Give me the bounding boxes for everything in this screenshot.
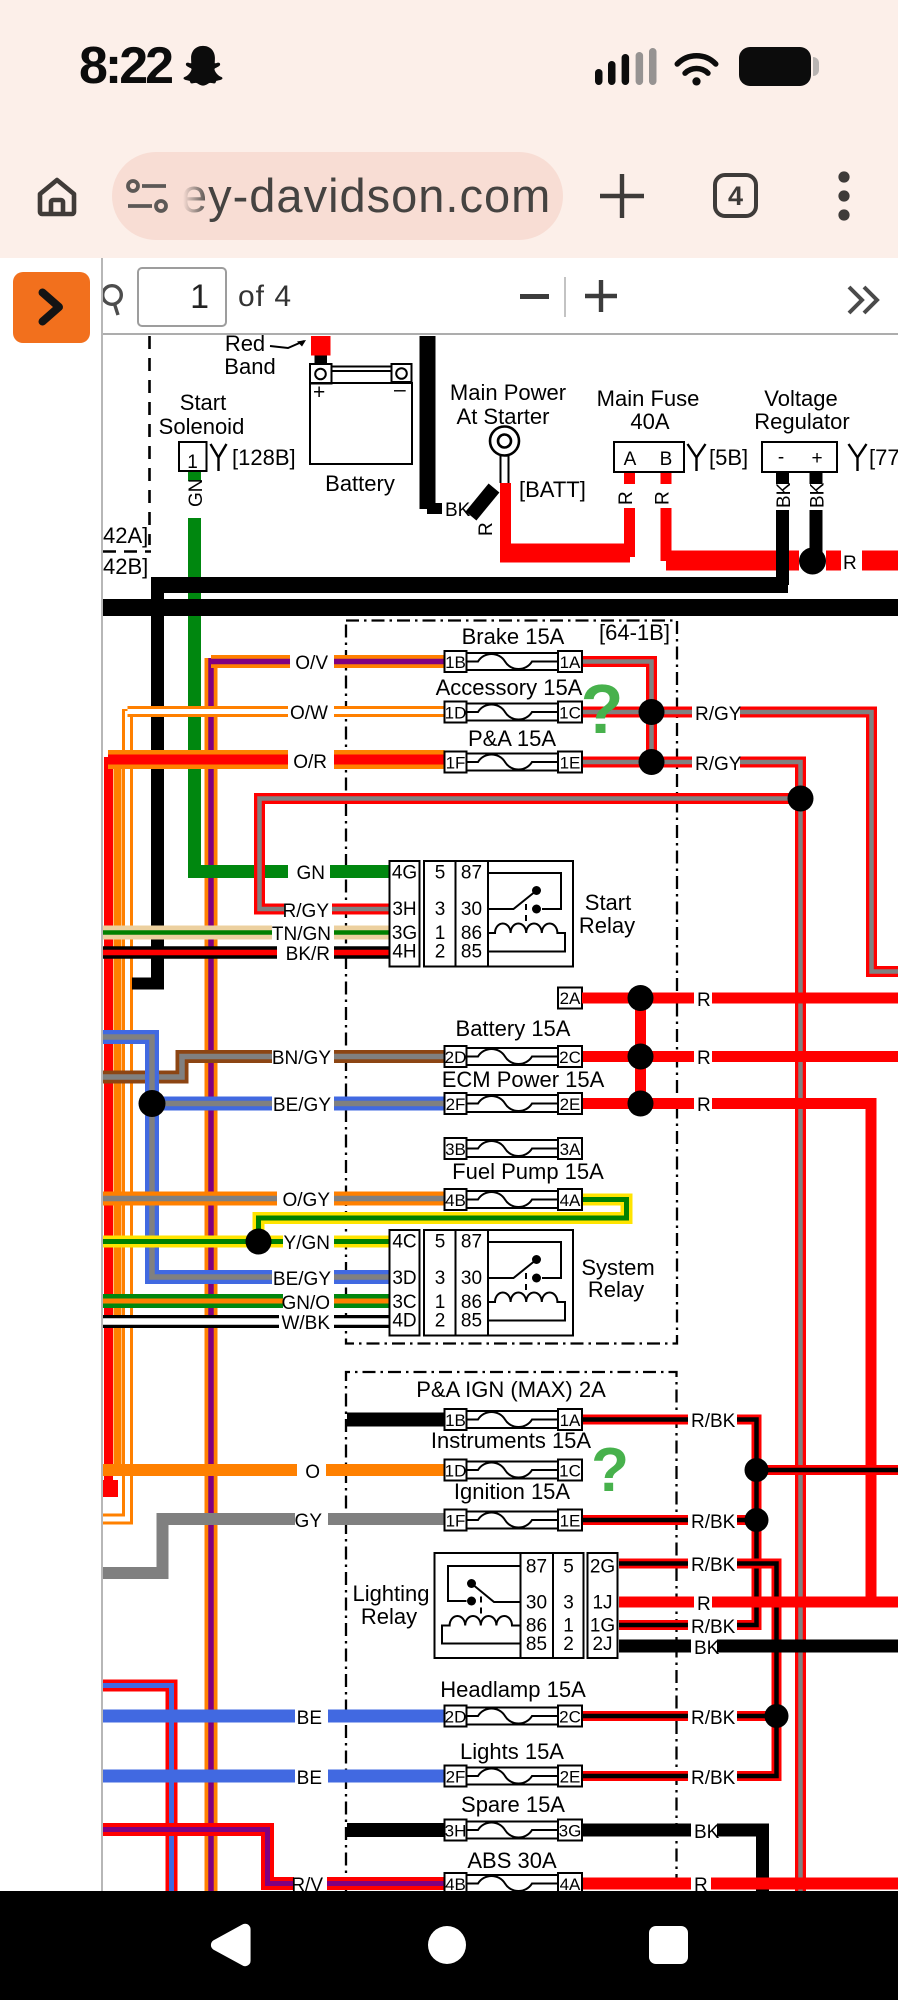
svg-text:2E: 2E xyxy=(560,1095,581,1114)
svg-text:2C: 2C xyxy=(559,1708,581,1727)
junction node BE/GY xyxy=(139,1090,166,1117)
ground bus lower (full width) xyxy=(103,599,898,616)
svg-text:Battery: Battery xyxy=(325,471,395,496)
svg-text:R/BK: R/BK xyxy=(691,1411,736,1432)
junction node R/BK ignition xyxy=(745,1508,769,1532)
label Start Solenoid xyxy=(159,390,245,439)
svg-text:?: ? xyxy=(581,670,624,748)
svg-text:2: 2 xyxy=(563,1634,574,1655)
svg-text:30: 30 xyxy=(526,1593,547,1614)
junction node 2C xyxy=(628,1044,654,1070)
svg-text:?: ? xyxy=(591,1436,629,1505)
status bar time xyxy=(79,36,171,96)
svg-text:5: 5 xyxy=(563,1557,574,1578)
voltage regulator plus lead BK xyxy=(810,472,823,552)
wire GY to fuse 1F (Ignition) xyxy=(103,1519,445,1573)
svg-text:3A: 3A xyxy=(560,1140,581,1159)
svg-text:3G: 3G xyxy=(559,1822,582,1841)
svg-text:O/GY: O/GY xyxy=(282,1190,330,1211)
wire R/GY from fuse 1E to node xyxy=(582,757,652,768)
fuse P&A IGN (MAX) 2A xyxy=(416,1377,606,1430)
kebab menu xyxy=(836,166,852,226)
fuse block 2 dash-dot border xyxy=(346,1372,677,1891)
svg-text:3D: 3D xyxy=(392,1268,416,1289)
wire R from fuse 2E right then down to lighting relay feed xyxy=(582,1104,871,1603)
svg-text:2G: 2G xyxy=(590,1557,615,1578)
pdf toolbar xyxy=(0,258,898,335)
svg-text:BE/GY: BE/GY xyxy=(273,1269,331,1290)
svg-text:3: 3 xyxy=(563,1593,574,1614)
junction node 2E xyxy=(628,1091,654,1117)
wire O/R to fuse 1F xyxy=(108,750,445,769)
wire R/V to fuse 4B (ABS) xyxy=(103,1830,445,1884)
svg-text:40A: 40A xyxy=(630,409,669,434)
wire O/R vertical (orange part) xyxy=(114,753,122,1468)
svg-text:At Starter: At Starter xyxy=(457,404,550,429)
svg-text:Relay: Relay xyxy=(588,1277,644,1302)
svg-text:R/BK: R/BK xyxy=(691,1768,736,1789)
battery icon xyxy=(739,46,823,88)
svg-text:W/BK: W/BK xyxy=(281,1313,330,1334)
svg-text:1F: 1F xyxy=(446,754,466,773)
svg-text:[77: [77 xyxy=(869,445,898,470)
svg-text:87: 87 xyxy=(526,1557,547,1578)
snapchat ghost notification icon xyxy=(180,43,226,89)
connector Y [77B] xyxy=(849,444,898,471)
zoom in xyxy=(584,279,618,313)
dashed connector boundary [142] xyxy=(103,336,151,552)
svg-text:1F: 1F xyxy=(446,1512,466,1531)
wire GN vertical from start solenoid xyxy=(188,471,201,872)
voltage regulator box xyxy=(762,442,837,472)
svg-text:P&A IGN (MAX) 2A: P&A IGN (MAX) 2A xyxy=(416,1377,606,1402)
wire BE/GY from left into junction and fuse 2F xyxy=(103,1037,445,1104)
wire O/GY to fuse 4B xyxy=(103,1192,445,1206)
junction node Y/GN xyxy=(246,1229,272,1255)
junction node R/GY right xyxy=(788,786,814,812)
svg-text:Red: Red xyxy=(225,335,265,356)
svg-text:R/GY: R/GY xyxy=(695,704,742,725)
svg-text:Battery 15A: Battery 15A xyxy=(456,1016,571,1041)
site settings icon xyxy=(126,176,170,218)
fuse Battery 15A xyxy=(445,1016,583,1067)
label System Relay xyxy=(581,1255,654,1302)
svg-text:O: O xyxy=(305,1462,320,1483)
junction node headlamp R/BK xyxy=(765,1704,789,1728)
svg-text:Lighting: Lighting xyxy=(352,1581,429,1606)
svg-text:4C: 4C xyxy=(392,1232,416,1253)
main fuse B lead red xyxy=(661,472,672,561)
wire BE to fuse 2D (Headlamp) xyxy=(103,1710,445,1723)
svg-text:R/BK: R/BK xyxy=(691,1512,736,1533)
wire R/GY main vertical down right side xyxy=(795,799,806,1892)
svg-text:Y/GN: Y/GN xyxy=(284,1233,330,1254)
junction node R/BK instruments xyxy=(745,1458,769,1482)
tab counter xyxy=(713,173,758,218)
nav home circle xyxy=(427,1925,467,1965)
wire R/GY branch from right node down to start relay 3H xyxy=(260,799,797,910)
svg-text:Solenoid: Solenoid xyxy=(159,414,245,439)
junction node 2A xyxy=(628,985,654,1011)
svg-text:2C: 2C xyxy=(559,1048,581,1067)
wire Y/GN from left to system relay 4C xyxy=(103,1236,390,1248)
wire GN to start relay 4G xyxy=(195,865,390,872)
svg-text:Start: Start xyxy=(180,390,226,415)
label Start Relay xyxy=(579,890,635,938)
svg-text:Main Fuse: Main Fuse xyxy=(597,386,700,411)
wire R/GY node link 1C node to 1E node xyxy=(646,712,657,762)
svg-text:R/BK: R/BK xyxy=(691,1708,736,1729)
svg-text:42B]: 42B] xyxy=(103,554,148,579)
svg-text:GN: GN xyxy=(186,479,207,508)
label Lighting Relay xyxy=(352,1581,429,1629)
svg-text:Band: Band xyxy=(224,354,275,379)
nav recents square xyxy=(649,1926,688,1964)
wire TN/GN to start relay 3G xyxy=(103,926,390,940)
svg-text:Accessory 15A: Accessory 15A xyxy=(436,675,583,700)
fuse Ignition 15A xyxy=(445,1479,583,1531)
wire R vertical linking 2A / 2C / 2E nodes xyxy=(635,998,646,1104)
wire O/W to fuse 1D xyxy=(128,706,445,717)
wire R/GY from P&A node right then down to main right node xyxy=(652,762,801,799)
red feeder horizontal from fuse B to right edge xyxy=(666,551,898,571)
wire BN/GY to fuse 2D xyxy=(103,1057,445,1078)
svg-text:R/GY: R/GY xyxy=(695,754,742,775)
svg-text:1C: 1C xyxy=(559,704,581,723)
label Main Power At Starter xyxy=(450,380,566,429)
svg-text:1: 1 xyxy=(187,452,198,473)
svg-text:BK: BK xyxy=(694,1822,720,1843)
svg-text:R: R xyxy=(694,1875,708,1891)
svg-text:Headlamp 15A: Headlamp 15A xyxy=(440,1677,586,1702)
svg-text:3H: 3H xyxy=(392,899,416,920)
svg-text:BN/GY: BN/GY xyxy=(272,1048,331,1069)
ground bus upper xyxy=(151,577,788,593)
wire R/BK from fuse 2E (lights) to vertical xyxy=(582,1771,688,1781)
svg-text:42A]: 42A] xyxy=(103,523,148,548)
svg-text:4A: 4A xyxy=(560,1875,581,1891)
main fuse A lead red xyxy=(624,472,635,557)
svg-text:85: 85 xyxy=(526,1634,547,1655)
fuse Brake 15A xyxy=(445,624,583,672)
svg-text:O/V: O/V xyxy=(295,653,328,674)
fuse Accessory 15A xyxy=(436,675,583,723)
wire GN/O to system relay 3C xyxy=(103,1294,390,1308)
svg-text:B: B xyxy=(660,449,673,470)
svg-text:4H: 4H xyxy=(392,942,416,963)
battery negative cable BK xyxy=(427,336,442,509)
svg-text:1A: 1A xyxy=(560,653,581,672)
wire R from fuse 2C to right edge xyxy=(582,1051,898,1062)
double chevron xyxy=(845,284,883,316)
wire BK thick vertical from ground bus xyxy=(132,589,164,984)
svg-text:–: – xyxy=(394,378,406,401)
wire R from 2A to right edge xyxy=(582,993,898,1004)
separator xyxy=(564,277,566,317)
wire BK/R to start relay 4H xyxy=(103,946,390,959)
svg-text:BK: BK xyxy=(808,482,829,508)
wire BK stub to fuse 1B (P&A IGN) xyxy=(347,1413,445,1427)
android nav bar xyxy=(0,1891,898,2000)
svg-text:4B: 4B xyxy=(445,1191,466,1210)
svg-text:R: R xyxy=(653,491,674,505)
fuse Instruments 15A xyxy=(431,1428,592,1481)
svg-text:A: A xyxy=(624,449,637,470)
ring terminal main power at starter xyxy=(490,427,519,484)
wire R/BK from node to right edge xyxy=(757,1465,898,1475)
svg-text:[BATT]: [BATT] xyxy=(519,477,586,502)
wire O to fuse 1D (Instruments) xyxy=(103,1464,445,1476)
svg-text:2D: 2D xyxy=(445,1708,467,1727)
svg-text:4G: 4G xyxy=(392,863,417,884)
svg-text:Spare 15A: Spare 15A xyxy=(461,1792,565,1817)
wire W/BK to system relay 4D xyxy=(103,1315,390,1328)
fuse Spare 15A xyxy=(445,1792,583,1841)
starter cable BK diagonal xyxy=(471,488,494,516)
wire R/BK from fuse 1A down through nodes to relay 1G xyxy=(582,1420,757,1626)
nav back triangle xyxy=(206,1920,256,1970)
fuse Fuel Pump 15A xyxy=(445,1159,605,1210)
start solenoid xyxy=(179,442,207,473)
svg-text:R/BK: R/BK xyxy=(691,1555,736,1576)
plus (new tab) icon xyxy=(598,172,646,220)
svg-text:O/W: O/W xyxy=(290,703,328,724)
svg-text:R: R xyxy=(697,1048,711,1069)
svg-text:1E: 1E xyxy=(560,754,581,773)
PDF page background xyxy=(103,335,898,1891)
wire R from fuse 4A (ABS) to right edge xyxy=(582,1878,898,1890)
fuse ABS 30A xyxy=(445,1848,583,1894)
fuse P&A 15A xyxy=(445,726,583,773)
wire O/W vertical xyxy=(103,709,128,1519)
wire R/GY from Accessory node right, down at far right, exits edge xyxy=(652,712,898,972)
svg-text:Fuel Pump 15A: Fuel Pump 15A xyxy=(452,1159,604,1184)
wire BE to fuse 2F (Lights) xyxy=(103,1770,445,1783)
svg-text:Main Power: Main Power xyxy=(450,380,566,405)
svg-text:BK: BK xyxy=(774,482,795,508)
svg-text:[64-1B]: [64-1B] xyxy=(599,620,670,645)
signal bars xyxy=(593,48,659,88)
svg-text:GN/O: GN/O xyxy=(281,1293,330,1314)
svg-text:BE/GY: BE/GY xyxy=(273,1095,331,1116)
red feeder horizontal from BATT to fuse A xyxy=(500,544,630,563)
svg-text:BK/R: BK/R xyxy=(286,944,330,965)
svg-text:1E: 1E xyxy=(560,1512,581,1531)
label Red Band with pointer xyxy=(224,331,306,379)
wire R from relay 1J to right edge xyxy=(619,1597,898,1608)
svg-text:4D: 4D xyxy=(392,1311,416,1332)
svg-text:2F: 2F xyxy=(446,1768,466,1787)
browser chrome background xyxy=(0,0,898,258)
url text xyxy=(181,168,551,223)
wire R/BE vertical (bottom left) xyxy=(103,1686,172,1892)
svg-text:4B: 4B xyxy=(445,1875,466,1891)
wire Y/GN branch loop to fuse 4A xyxy=(259,1200,627,1242)
svg-text:1D: 1D xyxy=(445,704,467,723)
svg-text:R/GY: R/GY xyxy=(283,901,330,922)
svg-text:1D: 1D xyxy=(445,1462,467,1481)
svg-text:2E: 2E xyxy=(560,1768,581,1787)
svg-text:3H: 3H xyxy=(445,1822,467,1841)
page number box xyxy=(137,267,227,327)
connector Y [5B] xyxy=(688,444,749,471)
wire R/GY from fuse 1A down to Accessory node xyxy=(582,662,652,713)
svg-text:3B: 3B xyxy=(445,1140,466,1159)
wire R/BK from fuse 1E to node xyxy=(582,1515,757,1525)
svg-text:[5B]: [5B] xyxy=(709,445,748,470)
svg-text:Relay: Relay xyxy=(361,1604,417,1629)
wire BK from fuse 3G (spare) down to bottom xyxy=(582,1830,763,1891)
svg-text:+: + xyxy=(313,381,325,404)
svg-text:2F: 2F xyxy=(446,1095,466,1114)
search icon (clipped by sidebar border) xyxy=(103,281,131,321)
battery symbol xyxy=(310,364,412,464)
svg-text:ABS 30A: ABS 30A xyxy=(467,1848,557,1873)
svg-text:TN/GN: TN/GN xyxy=(272,924,331,945)
svg-text:2J: 2J xyxy=(592,1634,612,1655)
svg-text:Start: Start xyxy=(585,890,631,915)
svg-text:[128B]: [128B] xyxy=(232,445,296,470)
wire BE/GY continues down to system relay 3D xyxy=(152,1104,390,1278)
svg-text:R: R xyxy=(616,491,637,505)
svg-text:P&A 15A: P&A 15A xyxy=(468,726,556,751)
junction node battery positive / regulator xyxy=(799,548,826,575)
svg-text:Lights 15A: Lights 15A xyxy=(460,1739,564,1764)
wire O/V to fuse 1B xyxy=(211,655,445,668)
svg-text:1C: 1C xyxy=(559,1462,581,1481)
url pill xyxy=(112,152,563,240)
wire O/R vertical (red part) xyxy=(103,757,118,1497)
fuse Lights 15A xyxy=(445,1739,583,1787)
main fuse box xyxy=(614,442,684,472)
fuse 3B 3A spare slot xyxy=(445,1138,583,1159)
wifi icon xyxy=(673,53,720,86)
voltage regulator minus lead BK xyxy=(776,472,789,585)
wire R from [BATT] ring down to main red node xyxy=(500,483,511,549)
wire O/V vertical xyxy=(205,658,218,1891)
svg-text:BE: BE xyxy=(297,1768,322,1789)
home button icon xyxy=(35,176,79,218)
sidebar open button xyxy=(13,272,90,343)
svg-text:Regulator: Regulator xyxy=(754,409,849,434)
svg-text:R: R xyxy=(476,522,497,536)
wire R/BK from fuse 2C (headlamp) to node xyxy=(582,1711,777,1721)
svg-text:R: R xyxy=(697,1095,711,1116)
fuse Headlamp 15A xyxy=(440,1677,586,1727)
wire R/BK from relay 2G down to headlamp node and lights fuse 2E xyxy=(619,1564,777,1777)
svg-text:GN: GN xyxy=(297,863,326,884)
svg-text:2D: 2D xyxy=(445,1048,467,1067)
connector Y [128B] xyxy=(211,444,296,471)
label Main Fuse 40A xyxy=(597,386,700,434)
svg-text:Ignition 15A: Ignition 15A xyxy=(454,1479,571,1504)
svg-text:R: R xyxy=(843,553,857,574)
svg-text:R/BK: R/BK xyxy=(691,1617,736,1638)
fuse ECM Power 15A xyxy=(442,1067,605,1114)
label Voltage Regulator xyxy=(754,386,849,434)
svg-text:Voltage: Voltage xyxy=(764,386,837,411)
battery red band xyxy=(311,336,331,365)
svg-text:Relay: Relay xyxy=(579,913,635,938)
svg-text:4A: 4A xyxy=(560,1191,581,1210)
svg-text:1B: 1B xyxy=(445,653,466,672)
svg-text:R: R xyxy=(697,990,711,1011)
zoom out xyxy=(520,294,549,299)
junction node P&A R/GY xyxy=(639,749,665,775)
svg-text:BK: BK xyxy=(694,1638,720,1659)
svg-text:Instruments 15A: Instruments 15A xyxy=(431,1428,592,1453)
svg-text:R: R xyxy=(697,1594,711,1615)
svg-text:1J: 1J xyxy=(592,1593,612,1614)
svg-text:GY: GY xyxy=(295,1511,323,1532)
svg-text:Brake 15A: Brake 15A xyxy=(462,624,565,649)
fuse block 1 dash-dot border [64-1B] xyxy=(346,621,677,1344)
junction node accessory R/GY xyxy=(639,699,665,725)
svg-text:+: + xyxy=(811,448,822,469)
wire R/GY from fuse 1C to node xyxy=(582,707,652,718)
svg-text:BE: BE xyxy=(297,1708,322,1729)
svg-text:2A: 2A xyxy=(560,989,581,1008)
svg-text:O/R: O/R xyxy=(293,752,327,773)
svg-text:-: - xyxy=(778,447,784,468)
terminal box 2A xyxy=(558,988,582,1009)
svg-text:R/V: R/V xyxy=(291,1875,323,1891)
svg-text:ECM Power 15A: ECM Power 15A xyxy=(442,1067,605,1092)
wire BK from relay 2J to right edge xyxy=(619,1640,898,1653)
wire BK stub to fuse 3H (Spare) xyxy=(347,1823,445,1837)
